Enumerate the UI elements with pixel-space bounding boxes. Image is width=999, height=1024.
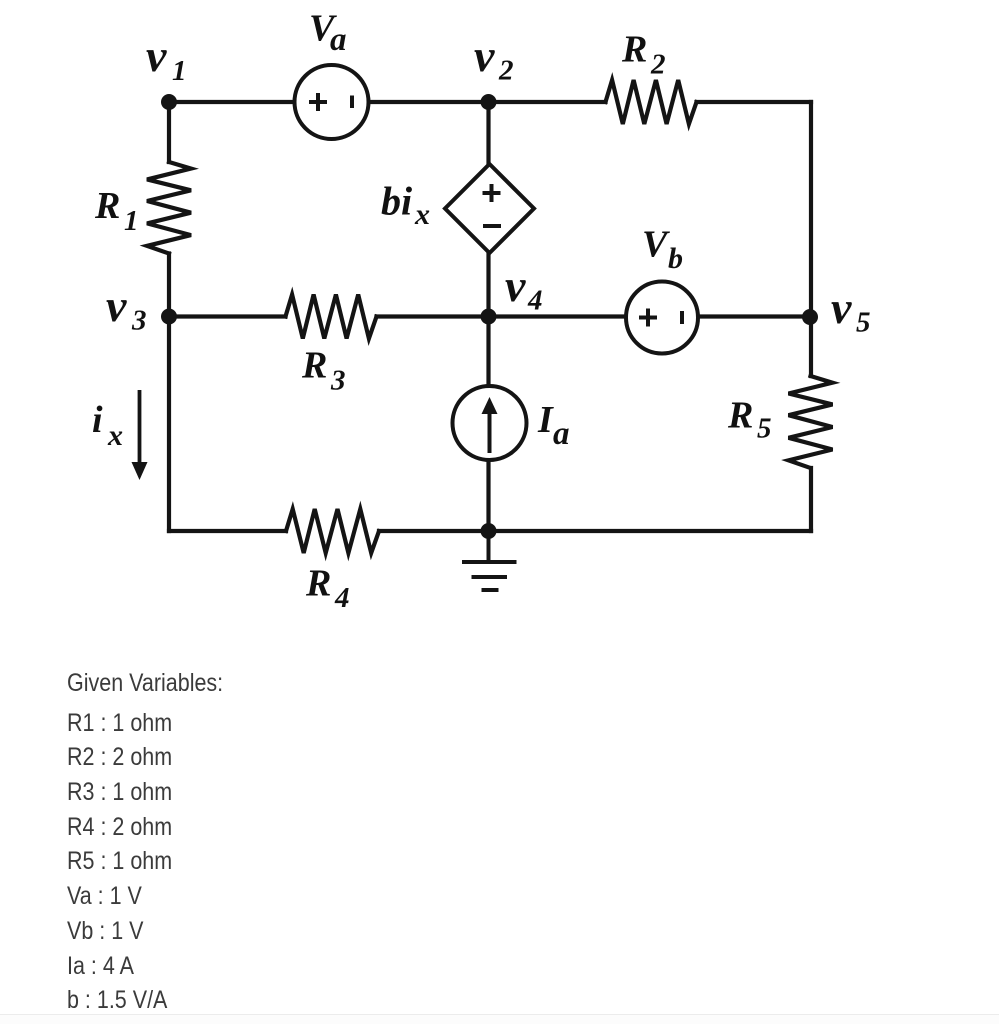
voltage source Va (295, 65, 369, 139)
svg-text:v: v (831, 282, 852, 333)
svg-text:v: v (146, 30, 167, 81)
svg-text:R: R (301, 345, 327, 387)
resistor R2 (606, 80, 697, 124)
svg-text:1: 1 (124, 205, 139, 237)
svg-text:R: R (94, 185, 120, 227)
node v1 (161, 94, 177, 110)
svg-text:5: 5 (757, 413, 772, 445)
svg-text:2: 2 (650, 49, 666, 81)
dependent source bix (diamond) (445, 164, 534, 253)
voltage source Vb (626, 282, 698, 354)
wire center stem: v2 down through diamond to v4 (486, 102, 490, 317)
resistor R4 (286, 509, 379, 553)
svg-text:3: 3 (330, 365, 346, 397)
svg-text:I: I (537, 399, 554, 441)
svg-text:b: b (668, 242, 683, 275)
svg-text:1: 1 (172, 55, 187, 87)
svg-text:4: 4 (527, 285, 543, 317)
svg-text:R: R (621, 29, 647, 71)
svg-text:x: x (107, 419, 123, 452)
current arrow ix (138, 390, 142, 466)
current source Ia (453, 386, 527, 460)
given variables text block (67, 666, 223, 1018)
resistor R1 (147, 162, 191, 254)
svg-text:5: 5 (856, 307, 871, 339)
svg-text:3: 3 (131, 305, 147, 337)
resistor R3 (286, 295, 377, 339)
resistor R5 (789, 376, 833, 468)
wire left: v1 down through R1 to v3 to bottom-left corner (167, 102, 171, 531)
svg-text:R: R (727, 395, 753, 437)
node v2 (481, 94, 497, 110)
svg-text:V: V (642, 224, 670, 266)
svg-text:i: i (92, 399, 103, 441)
ground (462, 531, 517, 590)
svg-text:v: v (474, 30, 495, 81)
wire top: v1 to Va to v2 to R2 to corner (169, 100, 811, 104)
svg-text:a: a (330, 22, 347, 58)
wire right: top corner down through R5 to bottom-right corner (809, 102, 813, 531)
node v5 (802, 309, 818, 325)
svg-text:bi: bi (381, 179, 412, 224)
svg-text:v: v (505, 260, 526, 311)
wire center lower stem: v4 down through Ia to bottom junction (486, 317, 490, 532)
wire middle: v3 to R3 to v4 to Vb to v5 (169, 314, 811, 318)
svg-text:a: a (553, 416, 570, 452)
svg-text:4: 4 (334, 582, 350, 614)
wire bottom: from bottom-left across R4 and ground junction to bottom-right (169, 529, 811, 533)
svg-text:x: x (414, 198, 430, 231)
node v4 (481, 309, 497, 325)
svg-text:v: v (106, 280, 127, 331)
svg-text:R: R (305, 563, 331, 605)
svg-text:2: 2 (498, 55, 514, 87)
node v3 (161, 309, 177, 325)
junction ground node (481, 523, 497, 539)
